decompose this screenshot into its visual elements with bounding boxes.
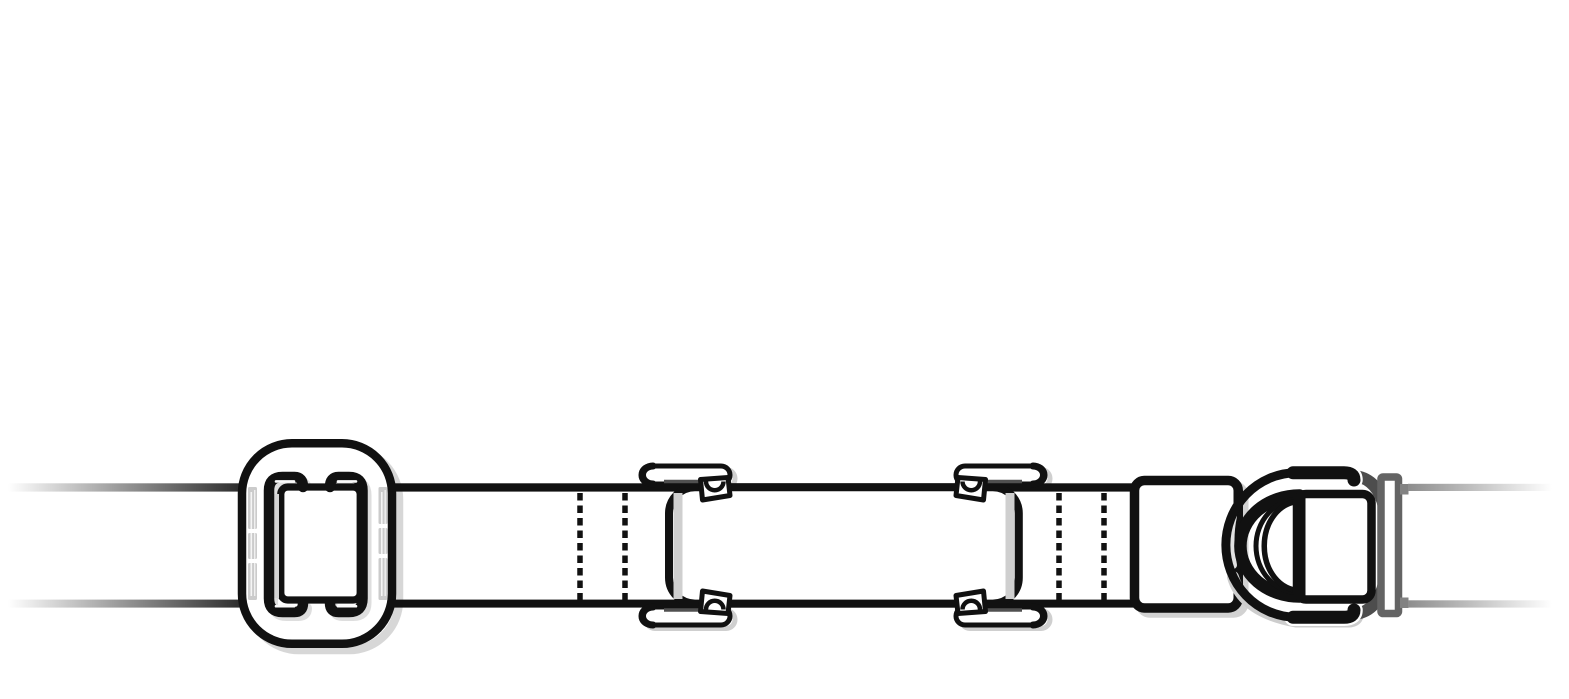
bottom-left bracket end arc — [643, 607, 654, 625]
top-right rivet — [963, 482, 981, 491]
main strap top edge — [389, 483, 1140, 491]
left buckle outer frame — [242, 443, 392, 644]
bottom-right rivet tab — [956, 591, 986, 614]
buckle left side text — [248, 487, 257, 600]
top-left rivet — [706, 482, 724, 491]
inner slider shadow — [273, 482, 307, 617]
bottom-right bracket — [956, 607, 1045, 625]
gray second ring top arc — [1356, 476, 1384, 507]
top-left bracket end arc — [643, 466, 654, 484]
top-left bracket — [641, 466, 730, 484]
strap wrap arc 1 — [1240, 496, 1299, 597]
top-right bracket inner shade — [972, 480, 1022, 483]
bottom-left bracket — [641, 607, 730, 625]
strap end box — [1135, 481, 1239, 609]
left strap top edge (fading) — [6, 483, 243, 491]
top-left bracket inner shade — [664, 480, 714, 483]
top-right bracket end arc — [1033, 466, 1044, 484]
strap through buckle — [281, 487, 360, 600]
top-right bracket shadow — [961, 470, 1050, 488]
top-left rivet tab — [701, 478, 731, 501]
top-left bracket shadow — [646, 470, 735, 488]
strap wrap arc 3 — [1264, 502, 1299, 591]
bottom-right rivet — [963, 601, 981, 610]
gray second ring bottom arc — [1356, 583, 1384, 614]
outer D-ring arc — [1226, 473, 1295, 618]
inner slider shadow right — [334, 482, 367, 617]
strap end box shadow — [1140, 486, 1244, 614]
outer D-ring bottom bar — [1293, 610, 1354, 617]
strap through rings left thick edge — [1294, 495, 1306, 599]
top-right bracket — [956, 466, 1045, 484]
D-ring shadow — [1233, 577, 1358, 622]
segment left inner shadow — [674, 493, 683, 599]
bottom-left bracket shadow — [646, 611, 735, 629]
right strap top edge (fading) — [1408, 484, 1552, 491]
gray ring flat bar — [1381, 477, 1399, 614]
left strap bottom edge (fading) — [6, 600, 243, 608]
bottom-right bracket shadow — [961, 611, 1050, 629]
bottom-right bracket inner shade — [972, 608, 1022, 611]
outer D-ring white halo — [1293, 473, 1354, 480]
hook notches — [276, 480, 294, 483]
stitch line 2 — [622, 493, 628, 600]
slider left C-bar with hooks — [269, 477, 303, 612]
strap wrap arc 2 — [1256, 499, 1300, 593]
center strap segment with rounded ends — [669, 487, 1019, 603]
strap through rings — [1297, 494, 1372, 600]
stitch line 3 — [1056, 493, 1062, 600]
main strap bottom edge — [389, 600, 1140, 608]
stitch line 1 — [577, 493, 583, 600]
right strap bottom edge (fading) — [1408, 600, 1552, 607]
slider right C-bar with hooks — [330, 477, 363, 612]
bottom-left rivet — [706, 601, 724, 610]
left buckle drop shadow — [249, 450, 399, 651]
buckle right side text — [379, 487, 388, 600]
bottom-left rivet tab — [701, 591, 731, 614]
outer D-ring top bar — [1293, 473, 1354, 480]
top-right rivet tab — [956, 478, 986, 501]
gray ring nub bottom — [1400, 598, 1409, 609]
gray ring nub top — [1400, 484, 1409, 495]
bottom-right bracket end arc — [1033, 607, 1044, 625]
inner shadow sliver left of strap — [274, 494, 279, 598]
segment right inner shadow — [1006, 493, 1015, 599]
stitch line 4 — [1101, 493, 1107, 600]
bottom-left bracket inner shade — [664, 608, 714, 611]
